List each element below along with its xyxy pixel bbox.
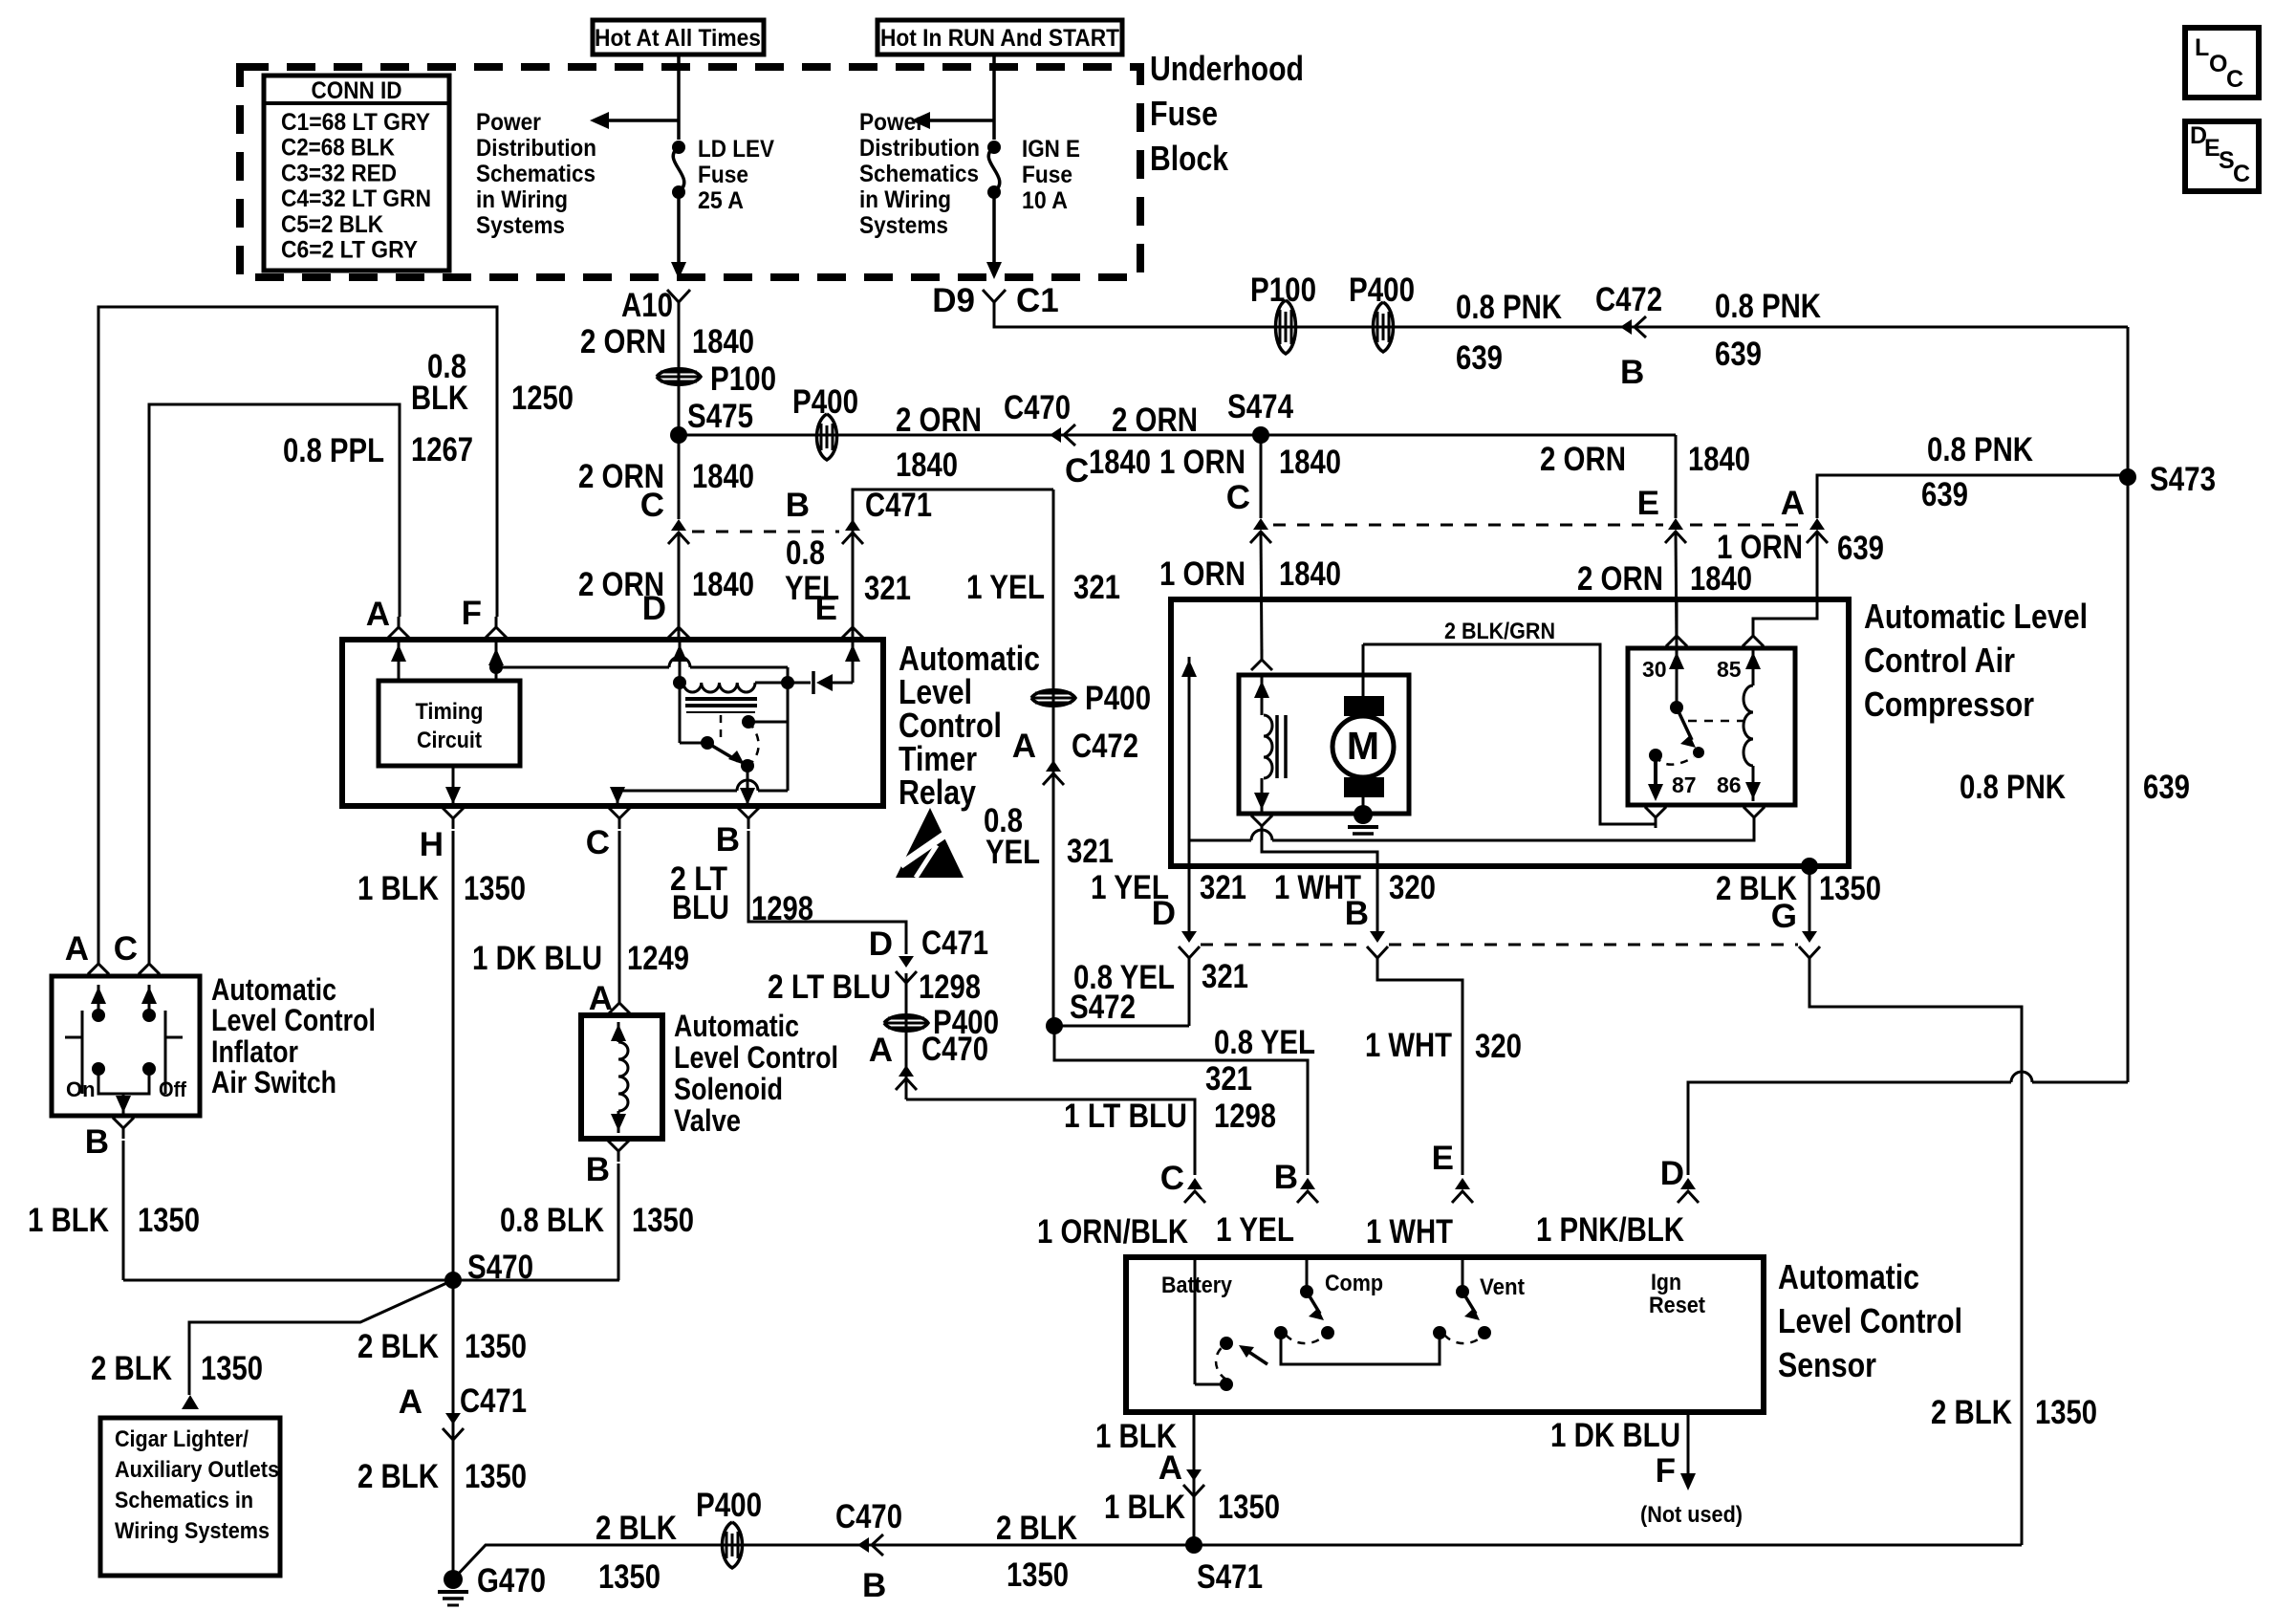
svg-text:2 BLK: 2 BLK [596, 1510, 677, 1547]
svg-text:C5=2 BLK: C5=2 BLK [281, 211, 383, 238]
svg-text:1 WHT: 1 WHT [1366, 1213, 1453, 1251]
svg-text:1 BLK: 1 BLK [1104, 1489, 1185, 1526]
svg-text:1350: 1350 [465, 1328, 527, 1365]
svg-text:BLU: BLU [672, 889, 729, 926]
svg-text:Wiring Systems: Wiring Systems [115, 1518, 270, 1544]
svg-text:S473: S473 [2150, 461, 2216, 498]
svg-text:321: 321 [1200, 869, 1246, 906]
svg-text:IGN E: IGN E [1022, 136, 1080, 163]
svg-text:2 BLK: 2 BLK [91, 1350, 172, 1387]
svg-text:C4=32 LT GRN: C4=32 LT GRN [281, 185, 431, 212]
svg-text:1350: 1350 [465, 1458, 527, 1495]
svg-text:Ign: Ign [1651, 1270, 1681, 1295]
svg-text:Automatic: Automatic [1778, 1257, 1919, 1296]
svg-text:Systems: Systems [859, 212, 948, 239]
svg-text:L: L [2195, 34, 2209, 61]
svg-text:Valve: Valve [674, 1103, 741, 1138]
svg-text:0.8 YEL: 0.8 YEL [1214, 1024, 1315, 1061]
svg-text:1298: 1298 [1214, 1098, 1276, 1135]
svg-text:G: G [1771, 898, 1797, 935]
svg-text:C1: C1 [1016, 282, 1059, 319]
svg-text:30: 30 [1642, 657, 1667, 682]
svg-text:1350: 1350 [1218, 1489, 1280, 1526]
svg-text:C: C [2226, 66, 2243, 93]
svg-text:Hot In RUN And START: Hot In RUN And START [880, 25, 1119, 52]
svg-text:87: 87 [1672, 772, 1697, 797]
svg-text:320: 320 [1475, 1028, 1522, 1065]
svg-text:P400: P400 [1349, 272, 1415, 309]
svg-text:S474: S474 [1227, 388, 1293, 425]
svg-text:C471: C471 [460, 1382, 527, 1420]
svg-text:1350: 1350 [1007, 1556, 1069, 1594]
svg-text:Hot At All Times: Hot At All Times [595, 25, 761, 52]
svg-text:1 DK BLU: 1 DK BLU [472, 940, 602, 977]
svg-text:P100: P100 [1250, 272, 1316, 309]
svg-text:0.8 PNK: 0.8 PNK [1960, 769, 2066, 806]
svg-text:10 A: 10 A [1022, 187, 1068, 214]
svg-text:1350: 1350 [598, 1558, 661, 1596]
svg-text:Distribution: Distribution [476, 135, 596, 162]
svg-text:Comp: Comp [1325, 1271, 1383, 1296]
svg-text:321: 321 [864, 570, 911, 607]
svg-text:P400: P400 [792, 383, 858, 421]
svg-text:1840: 1840 [1279, 444, 1341, 481]
svg-text:C2=68 BLK: C2=68 BLK [281, 135, 395, 162]
svg-text:O: O [2209, 51, 2227, 77]
svg-text:0.8: 0.8 [786, 534, 825, 572]
svg-text:Off: Off [159, 1077, 187, 1101]
svg-text:Block: Block [1150, 139, 1229, 178]
svg-text:On: On [66, 1077, 96, 1101]
svg-text:(Not used): (Not used) [1640, 1502, 1743, 1528]
svg-text:2 ORN: 2 ORN [1577, 560, 1663, 598]
svg-text:B: B [1274, 1159, 1298, 1196]
svg-text:1 LT BLU: 1 LT BLU [1064, 1098, 1187, 1135]
svg-text:320: 320 [1389, 869, 1436, 906]
svg-text:Power: Power [859, 109, 924, 136]
svg-text:B: B [586, 1151, 610, 1188]
svg-text:CONN ID: CONN ID [312, 77, 402, 104]
svg-text:C: C [640, 487, 664, 524]
svg-text:1840: 1840 [692, 323, 754, 360]
svg-text:C6=2 LT GRY: C6=2 LT GRY [281, 237, 418, 264]
svg-text:Underhood: Underhood [1150, 49, 1304, 88]
svg-text:Relay: Relay [899, 772, 976, 812]
svg-text:321: 321 [1202, 958, 1248, 995]
svg-text:BLK: BLK [411, 380, 468, 417]
svg-text:1298: 1298 [919, 968, 981, 1006]
svg-text:2 ORN: 2 ORN [1112, 402, 1198, 439]
svg-text:M: M [1347, 724, 1379, 768]
svg-text:D: D [1660, 1155, 1684, 1192]
svg-text:1 YEL: 1 YEL [966, 569, 1045, 606]
svg-text:C471: C471 [921, 925, 988, 962]
svg-text:C471: C471 [865, 487, 932, 524]
svg-text:1 BLK: 1 BLK [357, 870, 439, 907]
svg-text:321: 321 [1073, 569, 1120, 606]
svg-text:Auxiliary Outlets: Auxiliary Outlets [115, 1457, 279, 1483]
svg-text:B: B [716, 821, 740, 859]
svg-text:Fuse: Fuse [698, 162, 748, 188]
svg-text:2 BLK: 2 BLK [996, 1510, 1077, 1547]
svg-text:C470: C470 [835, 1498, 902, 1535]
svg-text:639: 639 [2143, 769, 2190, 806]
svg-text:Level Control: Level Control [1778, 1301, 1962, 1340]
svg-text:Circuit: Circuit [417, 728, 482, 753]
svg-text:1840: 1840 [1089, 444, 1151, 481]
svg-text:Automatic Level: Automatic Level [1864, 597, 2088, 636]
svg-text:F: F [1656, 1452, 1676, 1490]
svg-text:1 ORN/BLK: 1 ORN/BLK [1037, 1213, 1188, 1251]
svg-text:25 A: 25 A [698, 187, 744, 214]
svg-text:A: A [399, 1383, 422, 1421]
svg-text:B: B [862, 1567, 886, 1604]
svg-text:Control Air: Control Air [1864, 641, 2015, 680]
svg-text:321: 321 [1205, 1060, 1252, 1098]
svg-text:2 BLK: 2 BLK [1931, 1394, 2012, 1431]
svg-text:Level Control: Level Control [211, 1003, 376, 1037]
svg-text:in Wiring: in Wiring [859, 186, 951, 213]
svg-text:0.8 PPL: 0.8 PPL [283, 432, 384, 469]
svg-text:1840: 1840 [692, 566, 754, 603]
svg-text:A: A [366, 596, 390, 633]
svg-text:321: 321 [1067, 833, 1114, 870]
svg-text:1840: 1840 [1688, 441, 1750, 478]
svg-text:Fuse: Fuse [1022, 162, 1072, 188]
svg-text:Distribution: Distribution [859, 135, 980, 162]
svg-text:YEL: YEL [986, 834, 1040, 871]
svg-text:Schematics in: Schematics in [115, 1488, 253, 1513]
svg-text:B: B [786, 487, 810, 524]
svg-text:639: 639 [1456, 339, 1503, 377]
svg-text:1350: 1350 [138, 1202, 200, 1239]
svg-text:1350: 1350 [1819, 870, 1881, 907]
svg-text:Fuse: Fuse [1150, 94, 1218, 133]
svg-text:A10: A10 [621, 287, 673, 324]
svg-text:B: B [1345, 895, 1369, 932]
svg-text:1 ORN: 1 ORN [1717, 529, 1803, 566]
svg-text:Automatic: Automatic [211, 972, 336, 1007]
svg-text:Inflator: Inflator [211, 1034, 298, 1069]
svg-text:C470: C470 [1004, 389, 1071, 426]
svg-text:1249: 1249 [627, 940, 689, 977]
svg-text:E: E [1637, 485, 1659, 522]
svg-text:in Wiring: in Wiring [476, 186, 568, 213]
svg-text:0.8 PNK: 0.8 PNK [1927, 431, 2033, 468]
svg-text:S470: S470 [467, 1249, 533, 1286]
svg-text:639: 639 [1921, 476, 1968, 513]
svg-text:C472: C472 [1595, 281, 1662, 318]
svg-text:B: B [1620, 354, 1644, 391]
svg-text:2 ORN: 2 ORN [580, 323, 666, 360]
svg-text:D: D [1152, 895, 1176, 932]
svg-text:1 YEL: 1 YEL [1216, 1211, 1294, 1249]
svg-text:1840: 1840 [1279, 555, 1341, 593]
svg-text:85: 85 [1717, 657, 1742, 682]
svg-text:F: F [462, 595, 482, 632]
svg-text:A: A [1012, 728, 1036, 765]
svg-text:1 BLK: 1 BLK [28, 1202, 109, 1239]
svg-text:S475: S475 [687, 398, 753, 435]
svg-text:C470: C470 [921, 1031, 988, 1068]
svg-text:Systems: Systems [476, 212, 565, 239]
svg-text:C472: C472 [1072, 728, 1138, 765]
svg-text:0.8 PNK: 0.8 PNK [1456, 289, 1562, 326]
svg-text:Battery: Battery [1161, 1273, 1233, 1298]
svg-text:P100: P100 [710, 360, 776, 398]
svg-text:P400: P400 [1085, 680, 1151, 717]
svg-text:A: A [65, 930, 89, 968]
svg-text:0.8 YEL: 0.8 YEL [1073, 959, 1175, 996]
svg-text:0.8 PNK: 0.8 PNK [1715, 288, 1821, 325]
svg-text:1 ORN: 1 ORN [1159, 444, 1245, 481]
svg-text:1350: 1350 [2035, 1394, 2097, 1431]
svg-text:Compressor: Compressor [1864, 685, 2034, 724]
svg-text:C: C [2233, 161, 2250, 187]
svg-text:H: H [420, 826, 444, 863]
svg-text:C: C [1065, 452, 1089, 490]
svg-text:1250: 1250 [511, 380, 574, 417]
svg-text:G470: G470 [477, 1562, 546, 1599]
svg-text:Timing: Timing [416, 699, 484, 725]
svg-text:86: 86 [1717, 772, 1742, 797]
svg-text:D9: D9 [932, 282, 975, 319]
svg-text:1 DK BLU: 1 DK BLU [1550, 1417, 1680, 1454]
svg-text:1 PNK/BLK: 1 PNK/BLK [1536, 1211, 1684, 1249]
svg-text:Solenoid: Solenoid [674, 1072, 783, 1106]
svg-text:2 BLK: 2 BLK [357, 1328, 439, 1365]
svg-text:C1=68 LT GRY: C1=68 LT GRY [281, 109, 430, 136]
svg-text:2 ORN: 2 ORN [1540, 441, 1626, 478]
svg-text:S471: S471 [1197, 1558, 1263, 1596]
svg-text:Vent: Vent [1480, 1274, 1525, 1300]
svg-text:P400: P400 [696, 1487, 762, 1524]
svg-text:639: 639 [1837, 530, 1884, 567]
svg-text:2 BLK: 2 BLK [357, 1458, 439, 1495]
svg-text:C3=32 RED: C3=32 RED [281, 160, 397, 186]
svg-text:Sensor: Sensor [1778, 1345, 1876, 1384]
svg-text:C: C [114, 930, 138, 968]
svg-text:1350: 1350 [201, 1350, 263, 1387]
svg-text:1267: 1267 [411, 431, 473, 468]
svg-text:E: E [1432, 1140, 1454, 1177]
svg-text:1840: 1840 [692, 458, 754, 495]
svg-text:Schematics: Schematics [476, 161, 596, 187]
svg-text:2 ORN: 2 ORN [896, 402, 982, 439]
svg-text:D: D [642, 590, 666, 627]
svg-text:A: A [1781, 485, 1805, 522]
svg-text:C: C [1226, 479, 1250, 516]
svg-text:2 LT BLU: 2 LT BLU [768, 968, 891, 1006]
svg-text:C: C [1160, 1160, 1184, 1197]
svg-text:Automatic: Automatic [674, 1009, 799, 1043]
svg-text:1298: 1298 [751, 890, 813, 927]
svg-text:Power: Power [476, 109, 541, 136]
svg-text:Schematics: Schematics [859, 161, 979, 187]
svg-text:1350: 1350 [632, 1202, 694, 1239]
svg-text:1840: 1840 [896, 446, 958, 484]
svg-text:E: E [815, 590, 837, 627]
svg-text:1 WHT: 1 WHT [1365, 1027, 1452, 1064]
svg-text:0.8 BLK: 0.8 BLK [500, 1202, 604, 1239]
svg-text:Cigar Lighter/: Cigar Lighter/ [115, 1426, 249, 1452]
svg-text:A: A [869, 1032, 893, 1069]
svg-text:Level Control: Level Control [674, 1040, 838, 1075]
svg-text:D: D [869, 925, 893, 963]
svg-text:2 BLK/GRN: 2 BLK/GRN [1444, 619, 1555, 644]
svg-text:C: C [586, 824, 610, 861]
svg-text:Air Switch: Air Switch [211, 1065, 336, 1099]
svg-text:A: A [1159, 1449, 1182, 1487]
svg-text:639: 639 [1715, 336, 1762, 373]
svg-text:1350: 1350 [464, 870, 526, 907]
svg-text:LD LEV: LD LEV [698, 136, 774, 163]
svg-text:1 ORN: 1 ORN [1159, 555, 1245, 593]
svg-text:Reset: Reset [1649, 1293, 1705, 1318]
svg-text:B: B [85, 1123, 109, 1161]
